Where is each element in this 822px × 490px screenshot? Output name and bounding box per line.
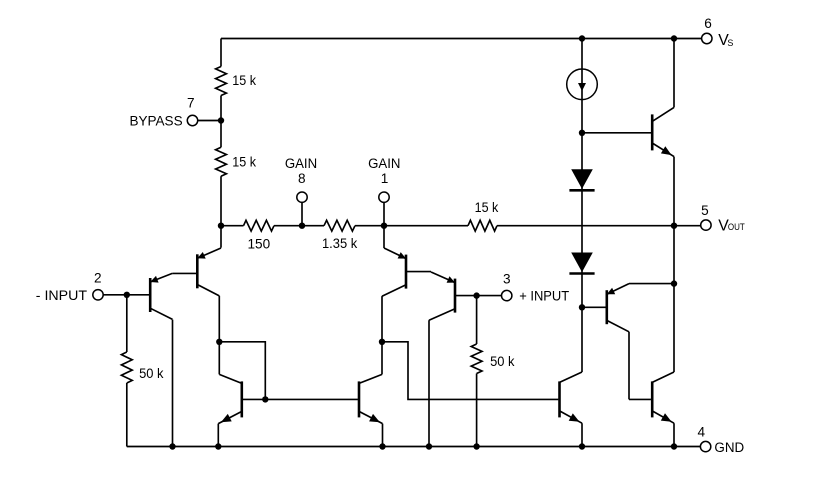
wire Q2 collector down to mirror: [218, 296, 220, 375]
svg-text:GND: GND: [714, 440, 744, 456]
wire Q5 emitter to ground: [217, 424, 219, 447]
junction Q3 collector at ground: [426, 443, 432, 449]
svg-text:3: 3: [503, 271, 511, 286]
junction +input node: [473, 292, 479, 298]
junction -input node: [124, 292, 130, 298]
wire ground rail: [127, 446, 701, 448]
svg-text:4: 4: [698, 424, 706, 439]
transistor Q6 (NPN current mirror output): [358, 374, 383, 423]
wire Q9 base: [629, 398, 651, 400]
wire Q2 base from Q1 emitter: [172, 272, 196, 274]
transistor Q10 (PNP output driver): [606, 284, 630, 332]
wire Q10 emitter to output line: [629, 283, 674, 285]
wire Q4 emitter up to gain-1 node: [383, 226, 385, 248]
svg-text:15 k: 15 k: [475, 200, 499, 215]
wire Q7 emitter to ground: [581, 423, 583, 446]
wire bias resistor to gain node: [220, 176, 222, 226]
junction rail / Q8 collector: [671, 35, 677, 41]
resistor 50 k (-input): [121, 352, 132, 383]
junction Q6/Q4 collector node: [379, 339, 385, 345]
wire mirror node to driver base: [382, 342, 558, 400]
wire Q8 emitter to output: [673, 157, 675, 226]
resistor 150: [244, 220, 275, 231]
current source symbol: [567, 69, 598, 100]
svg-text:1: 1: [381, 171, 389, 186]
wire Q3 collector to ground: [428, 320, 430, 446]
junction rail / current source: [579, 35, 585, 41]
wire Q6 emitter to ground: [382, 424, 384, 447]
svg-text:15 k: 15 k: [232, 73, 256, 88]
diode D2: [569, 253, 594, 274]
pin 7 BYPASS terminal: [187, 115, 197, 125]
transistor Q7 (NPN driver): [558, 372, 582, 423]
svg-text:50 k: 50 k: [490, 354, 515, 369]
transistor Q3 (PNP input follower): [429, 272, 477, 320]
svg-text:150: 150: [248, 236, 271, 251]
wire between bias resistors: [220, 96, 222, 148]
pin 8 GAIN terminal: [297, 192, 307, 202]
svg-text:1.35 k: 1.35 k: [322, 236, 357, 251]
svg-text:5: 5: [701, 203, 709, 218]
transistor Q1 (PNP input follower): [149, 273, 173, 319]
wire bypass stub: [198, 120, 221, 122]
wire -input stub: [103, 294, 127, 296]
wire top supply rail: [221, 38, 702, 40]
wire 1.35k to 15k: [355, 225, 468, 227]
svg-text:8: 8: [298, 171, 306, 186]
wire Q1 base: [127, 294, 149, 296]
pin 1 GAIN terminal: [379, 192, 389, 202]
junction Q10 emitter / output column: [671, 280, 677, 286]
wire +input node down to 50k: [476, 296, 478, 344]
svg-text:15 k: 15 k: [232, 155, 256, 170]
wire Q2 emitter up to gain node: [220, 226, 222, 248]
transistor Q8 (NPN output upper): [651, 107, 674, 156]
wire mirror collector-base tie: [219, 342, 265, 400]
wire 150 to 1.35k: [274, 225, 324, 227]
resistor 15 k (lower bias): [216, 147, 227, 176]
pin 2 -INPUT terminal: [93, 290, 103, 300]
svg-text:2: 2: [94, 271, 102, 286]
svg-text:6: 6: [704, 16, 712, 31]
svg-text:- INPUT: - INPUT: [36, 288, 88, 304]
svg-text:50 k: 50 k: [139, 366, 164, 381]
resistor 15 k (upper bias): [216, 67, 227, 96]
wire current source column: [581, 39, 583, 373]
resistor 1.35 k: [324, 220, 355, 231]
wire output column down to Q9 collector: [673, 284, 675, 372]
wire gain node to 150 resistor: [221, 225, 244, 227]
svg-text:BYPASS: BYPASS: [130, 114, 183, 130]
wire Q6 collector up: [381, 296, 383, 374]
wire gain-8 stub: [301, 202, 303, 225]
resistor 15 k (feedback): [468, 220, 497, 231]
junction 50k at ground: [473, 443, 479, 449]
junction Q5 emitter at ground: [215, 443, 221, 449]
pin 5 Vout terminal: [701, 220, 711, 230]
junction Q1 collector at ground: [169, 443, 175, 449]
wire 15k to output pin: [497, 225, 700, 227]
svg-text:GAIN: GAIN: [285, 156, 317, 172]
wire 50k to ground rail (left corner): [126, 383, 128, 447]
wire Q1 collector to ground: [172, 320, 174, 447]
svg-text:OUT: OUT: [728, 222, 745, 232]
transistor Q5 (NPN current mirror): [218, 374, 265, 423]
junction gain-8 node: [299, 223, 305, 229]
diode D1: [569, 169, 594, 190]
resistor 50 k (+input): [471, 344, 482, 374]
wire bypass column upper: [220, 39, 222, 67]
junction Q9 emitter at ground: [671, 443, 677, 449]
wire Q3 emitter corner to Q4 base: [430, 271, 431, 273]
junction output node on Vout line: [671, 223, 677, 229]
junction gain network left node: [218, 223, 224, 229]
wire -input node down to 50k: [126, 295, 128, 352]
current source arrow: [578, 83, 586, 91]
junction Q7 emitter at ground: [579, 443, 585, 449]
junction bypass node: [218, 117, 224, 123]
svg-text:S: S: [727, 38, 733, 48]
wire Q10 base: [582, 306, 606, 308]
transistor Q4 (PNP input gain): [382, 248, 430, 296]
svg-text:7: 7: [187, 96, 195, 111]
wire Q10 collector down: [628, 332, 630, 400]
wire output column Vout to Q10 emitter: [673, 226, 675, 284]
wire mirror base line: [265, 398, 358, 400]
junction Q6 emitter at ground: [379, 443, 385, 449]
wire Q8 base: [582, 132, 651, 134]
wire gain-1 stub: [383, 202, 385, 225]
wire +input stub: [477, 295, 502, 297]
wire 50k to ground: [476, 374, 478, 447]
wire Q9 emitter to ground: [673, 423, 675, 446]
junction D2 cathode / Q10 base node: [579, 304, 585, 310]
svg-text:+ INPUT: + INPUT: [519, 289, 569, 305]
pin 4 GND terminal: [700, 441, 710, 451]
pin 6 Vs terminal: [702, 33, 712, 43]
transistor Q2 (PNP input gain): [196, 248, 221, 296]
junction mirror base node: [262, 396, 268, 402]
pin 3 +INPUT terminal: [502, 290, 512, 300]
junction mirror input node: [216, 339, 222, 345]
svg-text:GAIN: GAIN: [368, 156, 400, 172]
junction Q8 base node: [579, 130, 585, 136]
transistor Q9 (NPN output lower): [651, 372, 674, 423]
wire Q8 collector to rail: [673, 39, 675, 108]
junction gain-1 node: [381, 223, 387, 229]
